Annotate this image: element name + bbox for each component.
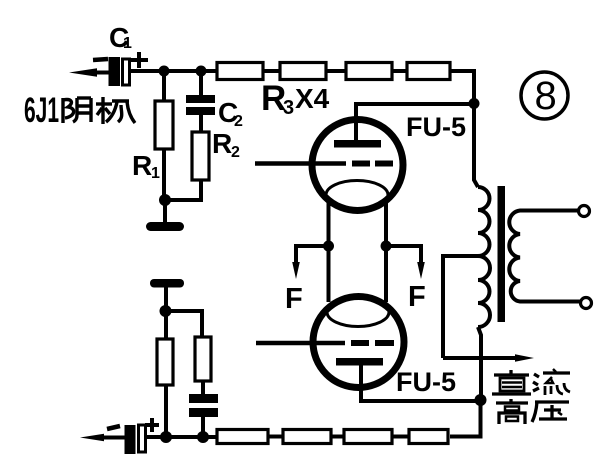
svg-text:6J1: 6J1: [24, 92, 59, 131]
circled figure number 8: [521, 72, 568, 119]
wire top rail: [129, 69, 217, 73]
wire: [263, 69, 280, 73]
node F right: [381, 241, 392, 252]
label FU-5 bottom: [396, 367, 456, 397]
wire resistor to capacitor: [201, 381, 205, 395]
CJK char liu (流): [533, 369, 570, 395]
secondary terminal bottom: [581, 298, 592, 309]
grid dashes (V2): [351, 340, 394, 346]
wire top rail to transformer: [450, 71, 478, 187]
svg-text:F: F: [408, 281, 426, 313]
wire F right with arrow: [386, 246, 425, 279]
label C2: [218, 97, 243, 130]
wire capacitor to rail: [201, 417, 205, 437]
CJK char zhi (直): [492, 370, 531, 394]
cathode terminal bar (bottom): [150, 279, 184, 288]
wire jog node to right branch: [166, 311, 203, 337]
svg-text:F: F: [285, 283, 303, 315]
node bottom-left branch: [160, 305, 172, 317]
capacitor C (electrolytic, bottom): [125, 425, 146, 454]
tube V1 envelope (top FU-5): [312, 120, 403, 211]
resistor R2: [192, 132, 209, 180]
capacitor (bottom, plates): [189, 394, 218, 417]
grid lead (V1): [255, 161, 346, 166]
wire bottom rail up to node: [450, 400, 481, 437]
svg-text:8: 8: [535, 74, 557, 118]
node right rail: [475, 394, 487, 406]
svg-text:2: 2: [234, 113, 243, 130]
svg-text:3: 3: [283, 97, 294, 119]
wire: [392, 435, 409, 439]
svg-text:FU-5: FU-5: [396, 367, 456, 397]
CJK char ya (压): [532, 402, 569, 422]
input arrow top-left: [69, 68, 109, 76]
input arrow bottom-left: [80, 434, 125, 441]
wire: [331, 435, 344, 439]
base ellipse (V1): [326, 181, 388, 210]
resistor R3 d: [407, 63, 450, 80]
wire right rail primary bottom to node: [478, 327, 481, 400]
node F left: [323, 241, 334, 252]
resistor bottom row d: [409, 430, 448, 444]
wire R1 top lead: [162, 71, 166, 102]
svg-text:R: R: [132, 150, 152, 181]
cathode terminal bar (top): [146, 222, 184, 231]
wire R1 bottom lead: [162, 149, 166, 200]
DC high voltage arrow: [443, 354, 534, 361]
label FU-5 top: [406, 112, 466, 142]
wire V2 anode to right rail: [361, 365, 480, 401]
label R1: [132, 150, 160, 182]
node anode junction: [469, 98, 480, 109]
wire resistor to rail: [164, 385, 168, 437]
wire node to resistor: [164, 311, 168, 340]
transformer primary winding: [478, 187, 490, 327]
label 6J1 cathode text: [24, 92, 59, 131]
wire bar to node: [164, 287, 168, 311]
wire C2 top lead: [199, 71, 203, 96]
capacitor C1 (electrolytic): [109, 57, 130, 86]
grid dashes (V1): [352, 161, 393, 167]
resistor (bottom right vertical): [195, 337, 211, 381]
minus polarity mark (C1 left): [93, 59, 108, 60]
base ellipse (V2): [327, 298, 389, 327]
wire R2 bottom to node: [165, 180, 201, 200]
node bottom rail left: [160, 431, 172, 443]
node (junction dot): [159, 66, 170, 77]
wire bottom rail left: [145, 435, 217, 439]
label F left: [285, 283, 303, 315]
wire top tube anode to rail: [356, 104, 474, 140]
label C1: [109, 22, 132, 53]
minus polarity mark (bottom cap): [107, 426, 120, 429]
CJK char ji (极): [96, 97, 135, 124]
wire node to cathode bar: [163, 200, 167, 222]
resistor R3 b: [280, 63, 326, 80]
label R3 X4: [261, 79, 330, 119]
resistor bottom row b: [283, 430, 331, 444]
plus polarity mark (bottom cap): [145, 418, 159, 432]
plus polarity mark (C1 right): [131, 52, 148, 68]
node below R1: [159, 194, 171, 206]
transformer secondary winding: [509, 211, 580, 302]
resistor R1: [155, 101, 173, 149]
anode plate bar (V1): [334, 140, 381, 148]
filament link wire right: [384, 202, 388, 302]
tube V2 envelope (bottom FU-5): [313, 297, 404, 388]
svg-text:1: 1: [123, 35, 132, 52]
capacitor C2: [186, 95, 215, 115]
svg-text:X4: X4: [295, 83, 330, 114]
node (junction dot): [196, 66, 207, 77]
transformer core: [498, 186, 506, 322]
CJK char gao (高): [496, 399, 528, 424]
secondary terminal top: [579, 206, 590, 217]
wire center tap to DC input: [443, 256, 478, 358]
CJK char yin (阴): [63, 98, 91, 123]
node bottom rail right: [197, 431, 209, 443]
filament link wire left: [327, 202, 331, 302]
resistor R3 a: [217, 63, 263, 80]
wire C2 to R2: [199, 115, 203, 133]
resistor R3 c: [346, 63, 392, 80]
resistor bottom row a: [217, 430, 268, 444]
wire: [326, 69, 346, 73]
wire F left with arrow: [292, 246, 328, 279]
anode plate bar (V2): [336, 358, 383, 366]
wire: [392, 69, 407, 73]
svg-text:1: 1: [151, 165, 160, 182]
grid lead (V2): [256, 341, 345, 346]
label R2: [212, 128, 240, 161]
svg-text:2: 2: [231, 144, 240, 161]
resistor (bottom left vertical): [157, 339, 173, 385]
label F right: [408, 281, 426, 313]
svg-text:R: R: [212, 128, 232, 159]
resistor bottom row c: [344, 430, 392, 444]
wire: [268, 435, 283, 439]
svg-text:FU-5: FU-5: [406, 112, 466, 142]
